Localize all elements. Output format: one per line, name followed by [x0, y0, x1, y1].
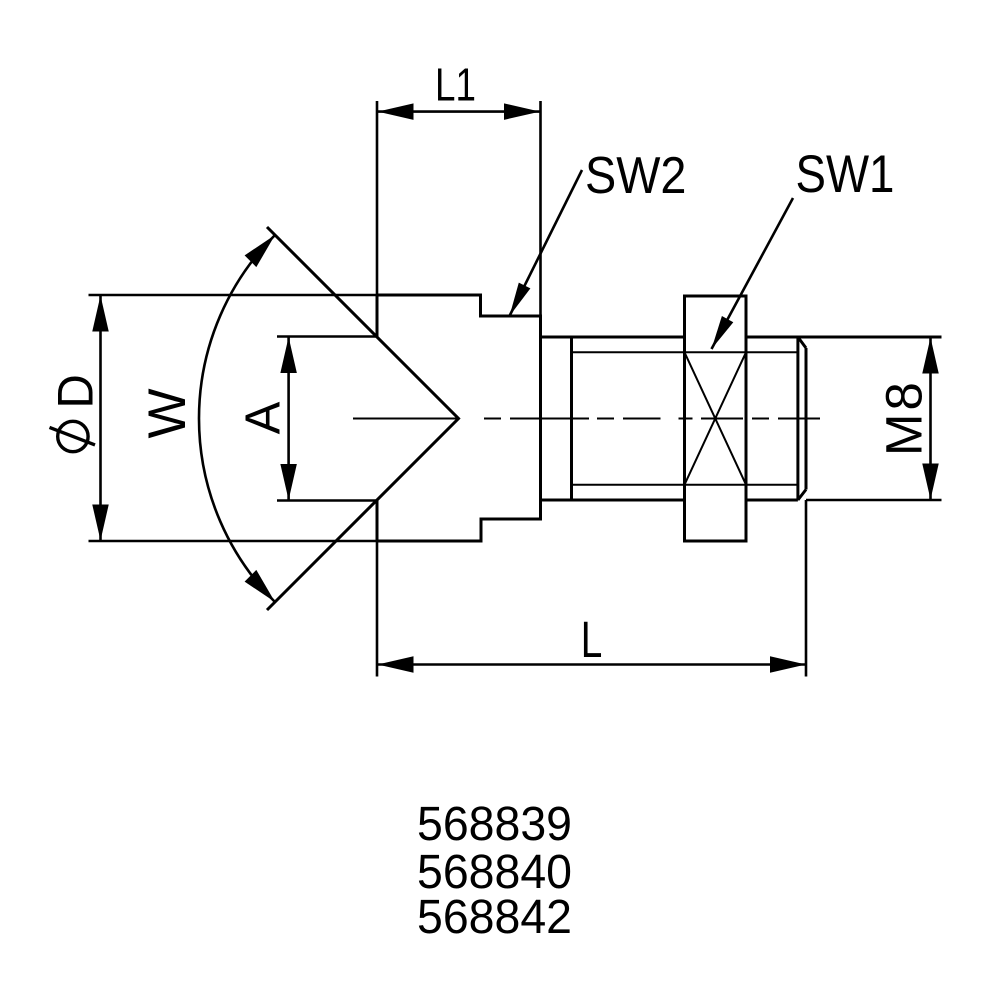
svg-text:SW2: SW2 [585, 147, 686, 205]
svg-text:L1: L1 [435, 59, 476, 111]
thread X symbol [685, 352, 747, 484]
body outline [377, 295, 541, 541]
dimension phi-D [48, 295, 377, 541]
centerline [353, 418, 820, 420]
phi symbol [58, 421, 88, 451]
svg-text:568839: 568839 [417, 798, 572, 851]
dimension M8 [806, 337, 942, 500]
nut SW1 block [685, 296, 747, 541]
dimension W angle arc [138, 235, 275, 602]
svg-text:568842: 568842 [417, 891, 572, 944]
svg-text:D: D [48, 374, 103, 408]
svg-text:SW1: SW1 [796, 145, 895, 204]
svg-text:L: L [581, 611, 603, 668]
dimension L [377, 500, 806, 677]
leader SW1 [712, 145, 895, 349]
svg-text:W: W [138, 388, 197, 438]
V-notch [267, 227, 459, 610]
svg-text:A: A [237, 401, 291, 434]
thread minor lines [572, 352, 798, 484]
leader SW2 [510, 147, 687, 316]
dimension A [237, 337, 377, 501]
stud thread outline [541, 337, 942, 500]
dimension L1 [377, 59, 541, 316]
svg-text:M8: M8 [876, 379, 933, 456]
